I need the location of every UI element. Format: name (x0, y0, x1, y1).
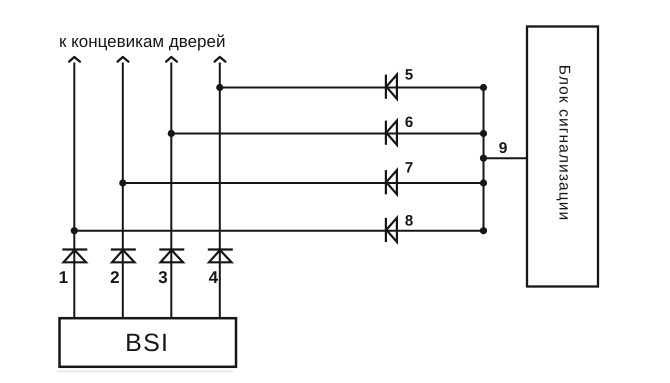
svg-text:2: 2 (110, 268, 119, 287)
diode D2 (111, 250, 136, 263)
svg-text:1: 1 (59, 268, 68, 287)
junction dot on line 4 (row 5) (216, 84, 223, 91)
arrow head 1 (69, 57, 80, 62)
BSI box shadow smudge (57, 371, 233, 373)
wire: row 6 horizontal (171, 133, 483, 135)
wire: vertical line 1 (73, 63, 75, 319)
wire: collector vertical (483, 88, 485, 231)
junction dot on line 3 (row 6) (168, 130, 175, 137)
diode D1 (62, 250, 87, 263)
svg-text:5: 5 (405, 67, 413, 84)
svg-text:к концевикам дверей: к концевикам дверей (59, 32, 225, 51)
BSI box (60, 318, 237, 367)
junction dot collector row 7 (480, 179, 487, 186)
junction dot on line 1 (row 8) (71, 227, 78, 234)
wire: vertical line 2 (122, 63, 124, 319)
junction dot collector row 5 (480, 84, 487, 91)
junction dot collector node 9 (480, 155, 487, 162)
arrow head 3 (166, 57, 177, 62)
svg-text:Блок сигнализации: Блок сигнализации (556, 65, 573, 222)
svg-text:9: 9 (499, 140, 508, 157)
svg-text:7: 7 (405, 160, 413, 177)
diode D5 (386, 75, 397, 99)
signal box (Блок сигнализации) (527, 27, 598, 287)
wire: vertical line 3 (170, 63, 172, 319)
diode D4 (208, 250, 233, 263)
svg-text:6: 6 (405, 114, 413, 131)
diode D6 (386, 121, 397, 145)
svg-text:8: 8 (405, 213, 413, 230)
wire: row 5 horizontal (220, 87, 484, 89)
diode D7 (386, 170, 397, 194)
junction dot collector row 6 (480, 130, 487, 137)
junction dot on line 2 (row 7) (119, 179, 126, 186)
wire: vertical line 4 (219, 63, 221, 319)
arrow head 2 (118, 57, 129, 62)
wire: row 7 horizontal (123, 182, 484, 184)
junction dot collector row 8 (480, 227, 487, 234)
svg-text:3: 3 (158, 268, 167, 287)
wire: node 9 to signal box (484, 157, 528, 159)
diode D8 (386, 218, 397, 242)
wire: row 8 horizontal (74, 230, 483, 232)
arrow head 4 (215, 57, 226, 62)
svg-text:4: 4 (209, 268, 219, 287)
diode D3 (159, 250, 184, 263)
svg-text:BSI: BSI (125, 329, 169, 357)
